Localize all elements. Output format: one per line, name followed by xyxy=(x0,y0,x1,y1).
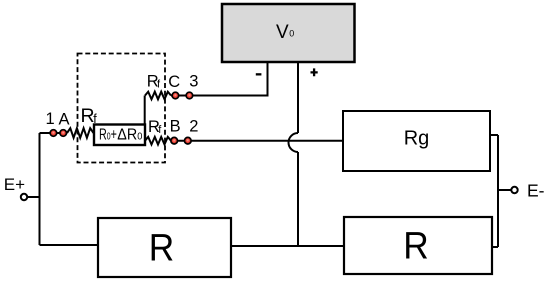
svg-text:B: B xyxy=(170,118,181,136)
svg-text:Rg: Rg xyxy=(404,128,430,150)
svg-text:V: V xyxy=(276,22,289,43)
svg-text:f: f xyxy=(158,124,162,136)
svg-text:3: 3 xyxy=(189,73,198,91)
svg-text:0: 0 xyxy=(289,29,294,39)
svg-text:R: R xyxy=(403,226,429,268)
svg-text:f: f xyxy=(157,78,161,90)
svg-text:1: 1 xyxy=(46,110,55,128)
svg-text:C: C xyxy=(168,73,180,91)
svg-text:f: f xyxy=(93,112,97,126)
svg-text:A: A xyxy=(59,111,70,129)
svg-text:E+: E+ xyxy=(4,175,25,194)
svg-text:E-: E- xyxy=(527,181,545,201)
svg-text:2: 2 xyxy=(189,118,198,136)
svg-text:R: R xyxy=(149,228,175,270)
